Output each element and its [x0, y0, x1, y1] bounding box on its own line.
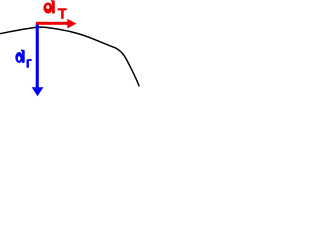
- label a_r (blue): [15, 50, 31, 68]
- subscript r: [27, 59, 29, 68]
- subscript T: [57, 8, 66, 10]
- tangential acceleration vector a_T (red, rightward): [36, 19, 76, 29]
- label a_T (red): [43, 0, 66, 19]
- letter a: [15, 52, 23, 63]
- radial acceleration vector a_r (blue, downward): [32, 24, 44, 96]
- curved path of motion: [0, 27, 139, 86]
- letter a: [43, 2, 52, 13]
